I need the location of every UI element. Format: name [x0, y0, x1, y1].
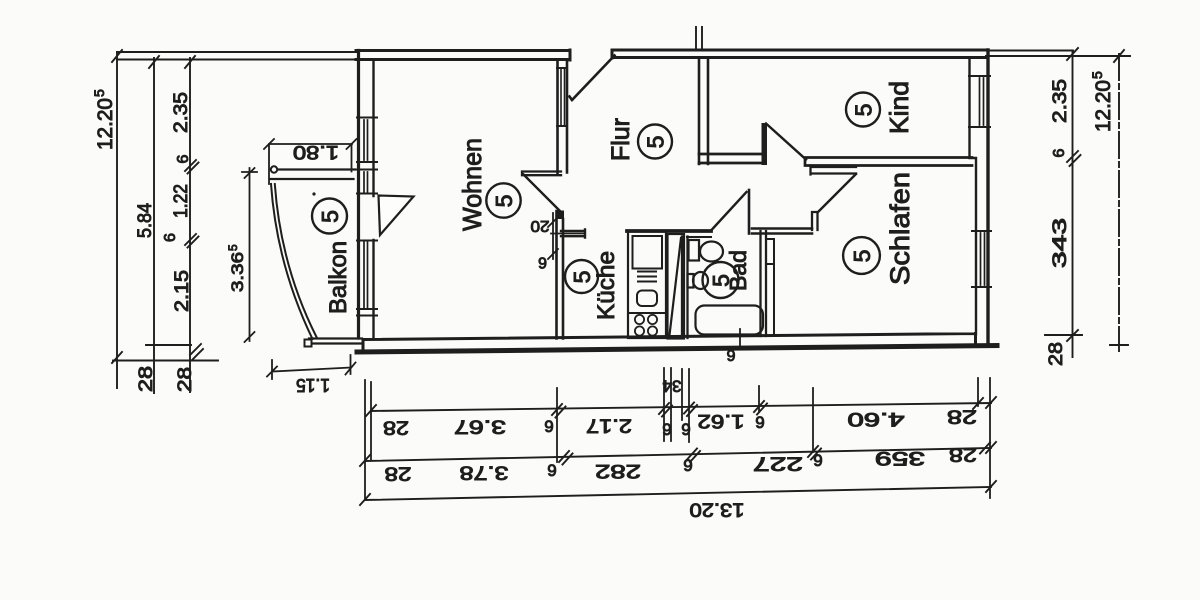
dim line R1 chain	[1045, 48, 1082, 357]
wall top-right outer (Flur/Kind top)	[612, 50, 987, 58]
door Wohnen leaf	[524, 175, 561, 212]
balcony dim text 3.36	[226, 244, 247, 292]
svg-text:6: 6	[662, 420, 671, 439]
wall top-left outer (Wohnen top)	[356, 50, 570, 60]
room label Bad	[725, 250, 751, 291]
dim 20 at Wohnen door	[548, 213, 585, 259]
svg-text:28: 28	[136, 366, 157, 392]
dim text 6 left upper	[175, 155, 192, 164]
svg-text:4.60: 4.60	[848, 408, 905, 429]
dim text 3.67	[454, 416, 506, 437]
dim text 28 B2-b	[949, 444, 977, 465]
svg-text:12.20: 12.20	[1092, 80, 1115, 132]
plumbing shaft lines right of Bad	[766, 239, 774, 334]
wall Wohnen/Flur upper with glass	[558, 60, 568, 174]
bath tub leader line	[739, 329, 741, 347]
dim text 6 B2-a	[547, 461, 556, 480]
svg-text:Flur: Flur	[607, 118, 635, 161]
dim text 6 B2-c	[813, 451, 822, 470]
room label Kueche	[593, 251, 620, 320]
dim text 28 left-a	[136, 366, 157, 392]
svg-text:1.22: 1.22	[171, 184, 192, 218]
kitchen stove burners	[635, 315, 657, 336]
svg-text:Wohnen: Wohnen	[457, 138, 487, 231]
dim text 6 left lower	[162, 233, 179, 242]
svg-text:282: 282	[595, 460, 641, 481]
svg-text:5: 5	[849, 250, 875, 263]
kitchen tall cupboard with diagonal	[668, 234, 685, 339]
svg-text:1.15: 1.15	[296, 375, 330, 395]
balcony dot speck	[312, 192, 315, 195]
bath toilet tank	[688, 274, 694, 288]
svg-text:Balkon: Balkon	[325, 241, 352, 314]
dim text 6 B2-b	[683, 456, 692, 475]
bath toilet bowl	[693, 272, 708, 289]
dim line B3	[360, 481, 996, 505]
dim text 2.17	[586, 415, 632, 436]
dim text 3.43	[1050, 218, 1071, 268]
dim text 6 B1-b	[755, 413, 764, 432]
svg-text:5: 5	[226, 244, 240, 251]
dim top connector lines left	[117, 52, 357, 60]
svg-text:28: 28	[383, 417, 409, 438]
dim text 2.15	[172, 270, 193, 312]
svg-text:5: 5	[317, 210, 343, 223]
dim line B1	[366, 397, 996, 418]
dim text 12.20 right	[1089, 71, 1115, 132]
balcony dim text 1.80	[293, 141, 339, 162]
wall Schlafen door bar	[811, 166, 857, 175]
room label Kind	[884, 81, 914, 134]
balcony dim text 1.15	[296, 375, 330, 395]
dim line R2 12.20 dashed	[1110, 50, 1128, 351]
window glazing right wall	[980, 78, 985, 285]
kitchen stove divider	[628, 312, 666, 314]
svg-text:3.67: 3.67	[454, 416, 506, 437]
dim text 28 right	[1046, 342, 1067, 366]
room circle 5 Kind	[846, 93, 880, 127]
wall Bad left	[682, 237, 688, 339]
bath washbasin bowl	[700, 242, 723, 262]
svg-text:3.36: 3.36	[228, 252, 247, 292]
svg-text:6: 6	[547, 461, 556, 480]
dim text 13.20 total	[690, 499, 745, 520]
dim text 28 B1-b	[947, 406, 977, 427]
wall bottom exterior inner line	[363, 334, 976, 352]
dim text 6 B1-a	[544, 417, 553, 436]
dim text 28 B1-a	[383, 417, 409, 438]
svg-text:6: 6	[683, 456, 692, 475]
svg-text:5: 5	[708, 274, 734, 287]
balcony slab top edge	[270, 178, 354, 180]
dim 6 below Wohnen door	[538, 254, 547, 271]
balcony dim line 1.80	[264, 139, 357, 184]
dim text 6 6 pair	[662, 420, 671, 439]
dim text 34 above line	[663, 377, 682, 396]
kitchen counter outline	[628, 232, 666, 339]
svg-text:6: 6	[544, 417, 553, 436]
wall Bad top right part	[752, 229, 812, 234]
window sills left wall	[357, 118, 377, 316]
dim bottom connectors left	[113, 345, 218, 361]
svg-text:6: 6	[813, 451, 822, 470]
room circle 5 Wohnen	[486, 183, 520, 217]
wall Flur/Kueche counter top line	[627, 229, 711, 233]
svg-text:28: 28	[385, 463, 412, 484]
bath tub	[696, 306, 764, 335]
svg-text:2.17: 2.17	[586, 415, 632, 436]
room label Balkon	[325, 241, 352, 314]
svg-text:28: 28	[949, 444, 977, 465]
svg-text:20: 20	[530, 217, 549, 234]
dim text 12.20 left	[91, 89, 117, 150]
room circle 5 Kueche	[565, 260, 598, 293]
window sills right wall	[969, 76, 991, 287]
svg-text:6: 6	[726, 346, 735, 363]
door balcony triangle	[379, 196, 414, 236]
dim line L1 12.20	[112, 50, 122, 388]
balcony dim 1.15 bottom	[267, 355, 356, 379]
dim text 2.27	[753, 453, 803, 474]
wall Kind left	[699, 60, 708, 164]
wall Bad/Schlafen	[761, 231, 767, 336]
extension mark above top wall near Kind	[696, 27, 702, 50]
balcony bottom edge	[306, 339, 362, 344]
room circle 5 Bad	[703, 262, 739, 298]
door Bad jamb and leaf	[748, 190, 751, 234]
svg-text:3.78: 3.78	[460, 462, 509, 483]
svg-text:1.62: 1.62	[698, 410, 745, 431]
svg-text:12.20: 12.20	[94, 98, 117, 150]
svg-text:2.35: 2.35	[1050, 79, 1071, 123]
door Schlafen leaf	[818, 174, 856, 212]
svg-text:28: 28	[947, 406, 977, 427]
room circle 5 Flur	[638, 125, 672, 159]
wall left exterior	[357, 51, 360, 339]
kitchen fridge	[633, 236, 663, 269]
wall Kueche top return	[561, 230, 585, 238]
kitchen sink	[637, 291, 657, 307]
svg-text:Schlafen: Schlafen	[885, 172, 915, 285]
svg-text:6: 6	[175, 155, 192, 164]
svg-text:5.84: 5.84	[135, 203, 156, 238]
dim text 1.62	[698, 410, 745, 431]
room label Flur	[607, 118, 635, 161]
window glazing left wall	[364, 120, 368, 308]
dim extension verticals bottom	[365, 368, 990, 500]
balcony top rail	[271, 168, 355, 170]
kitchen vent lines	[638, 272, 656, 282]
bath washbasin tap block	[689, 240, 700, 261]
svg-text:28: 28	[1046, 342, 1067, 366]
svg-text:6: 6	[538, 254, 547, 271]
wall Wohnen/Kueche lower	[557, 211, 564, 339]
svg-text:359: 359	[875, 447, 925, 468]
svg-text:227: 227	[753, 453, 803, 474]
dim text 28 B2-a	[385, 463, 412, 484]
svg-text:28: 28	[175, 367, 196, 392]
dim text 2.35 left	[171, 92, 192, 133]
wall jamb Schlafen door	[812, 212, 818, 230]
wall Kind bottom	[699, 154, 764, 163]
dim line L2 5.84	[149, 56, 159, 393]
svg-text:6: 6	[681, 420, 690, 439]
dim text 3.59	[875, 447, 925, 468]
svg-text:5: 5	[91, 89, 107, 97]
svg-text:34: 34	[663, 377, 682, 396]
room label Schlafen	[885, 172, 915, 285]
dim text 2.82	[595, 460, 641, 481]
dim text 28 left-b	[175, 367, 196, 392]
svg-text:6: 6	[755, 413, 764, 432]
wall right exterior	[986, 50, 989, 346]
wall Flur/Schlafen	[805, 158, 972, 166]
svg-text:13.20: 13.20	[690, 499, 745, 520]
svg-text:Küche: Küche	[593, 251, 620, 320]
svg-text:6: 6	[162, 233, 179, 242]
svg-text:Kind: Kind	[884, 81, 914, 134]
svg-text:343: 343	[1050, 218, 1071, 268]
svg-text:6: 6	[1051, 149, 1068, 158]
door Kind jamb and leaf	[762, 123, 768, 165]
room circle 5 Balkon	[312, 199, 347, 234]
dim line L3 chain	[185, 56, 203, 392]
wall bottom exterior outer line	[357, 346, 997, 353]
svg-text:1.80: 1.80	[293, 141, 339, 162]
room circle 5 Schlafen	[843, 237, 880, 274]
door entrance leaf	[570, 56, 615, 101]
svg-text:2.15: 2.15	[172, 270, 193, 312]
svg-text:2.35: 2.35	[171, 92, 192, 133]
dim text 2.35 right	[1050, 79, 1071, 123]
room label Wohnen	[457, 138, 487, 231]
balcony curved edge double	[271, 184, 317, 339]
dim text 1.22	[171, 184, 192, 218]
dim text 6 right	[1051, 149, 1068, 158]
svg-text:5: 5	[643, 136, 669, 149]
dim line B2	[360, 442, 996, 466]
svg-text:5: 5	[1089, 71, 1105, 79]
balcony dim 3.36 vertical	[242, 168, 257, 342]
svg-text:5: 5	[491, 195, 517, 208]
bath dim text 6 at tub	[726, 346, 735, 363]
dim text 5.84	[135, 203, 156, 238]
wall notch at Wohnen top-right corner	[522, 172, 561, 176]
dim text 4.60	[848, 408, 905, 429]
dim text 3.78	[460, 462, 509, 483]
svg-text:5: 5	[569, 271, 595, 284]
svg-text:5: 5	[851, 104, 877, 117]
dim top connector lines right	[986, 51, 1130, 57]
